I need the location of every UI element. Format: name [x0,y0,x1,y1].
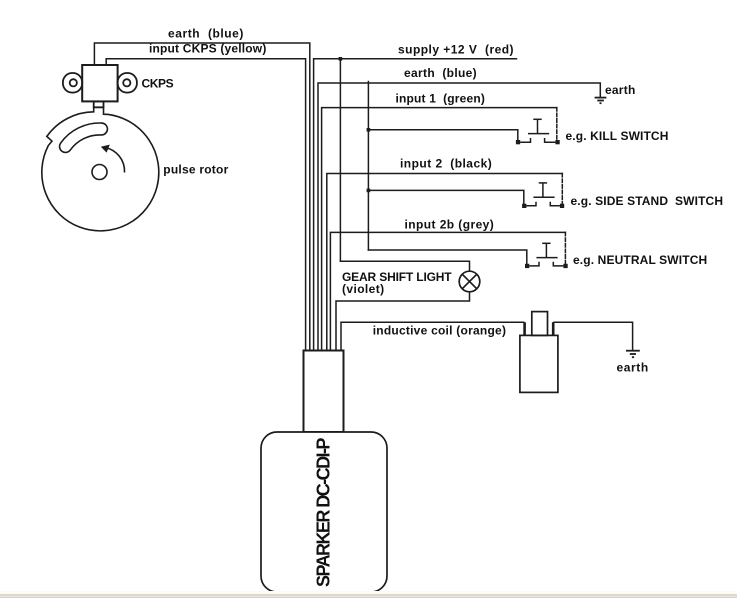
wire earth blue main from CDI to earth [318,83,600,351]
wire earth blue from CKPS to CDI [94,43,309,351]
earth symbol bottom right [626,351,640,358]
lamp GEAR SHIFT LIGHT [459,271,480,292]
bottom page strip [0,591,737,595]
wire kill switch return [368,130,517,140]
wire dashed drop to side stand switch [561,174,563,204]
pulse rotor outline with trigger tab and notch [42,107,159,231]
wire supply branch to gear shift light [339,59,341,261]
svg-text:CKPS: CKPS [142,77,174,91]
svg-text:input CKPS (yellow): input CKPS (yellow) [149,42,267,56]
svg-text:input 2 (black): input 2 (black) [400,157,492,171]
svg-text:supply +12 V (red): supply +12 V (red) [398,42,514,56]
svg-text:earth (blue): earth (blue) [168,27,244,41]
wire input 2b grey from CDI [330,232,565,350]
ignition coil (inductive) [520,312,558,393]
rotor center hole [92,165,107,180]
pushbutton switch NEUTRAL SWITCH [525,243,568,268]
wire supply +12V red from CDI [314,59,517,351]
wire switch-return bus [367,82,369,251]
svg-text:(violet): (violet) [342,282,385,296]
wire ignition coil to earth [554,322,633,350]
rotor slot (banana window) [66,129,102,147]
CKPS left mounting ear [63,73,82,93]
wire inductive coil orange from CDI [341,322,524,350]
earth symbol top right [595,98,607,104]
wire side stand switch return [368,190,523,203]
junction kill return [367,128,371,132]
wire neutral switch return [368,250,526,264]
svg-text:e.g. SIDE STAND SWITCH: e.g. SIDE STAND SWITCH [571,194,724,208]
CDI unit body SPARKER DC-CDI-P [261,432,387,592]
svg-text:e.g. NEUTRAL SWITCH: e.g. NEUTRAL SWITCH [573,253,707,267]
rotation arrow head [101,145,110,153]
wire dashed drop to neutral switch [564,232,566,263]
sensor CKPS body [82,65,117,101]
svg-text:input 2b (grey): input 2b (grey) [405,217,495,231]
wire input CKPS yellow from CKPS to CDI [106,59,305,351]
svg-text:earth (blue): earth (blue) [404,66,477,80]
wire gear shift light bottom violet to CDI [336,292,470,351]
wire input 2 black from CDI [327,174,563,351]
wire dashed drop to kill switch [556,108,558,140]
wire gear shift light top [340,261,469,271]
svg-text:SPARKER DC-CDI-P: SPARKER DC-CDI-P [314,438,334,587]
wire input 1 green from CDI [322,108,557,351]
CDI cable stem [304,351,344,433]
CKPS bottom stub on rotor tab [94,101,104,107]
junction supply/gear-light [339,57,343,61]
svg-text:earth: earth [605,83,636,97]
CKPS right mounting ear [118,73,137,93]
svg-text:pulse rotor: pulse rotor [163,163,228,177]
pushbutton switch KILL SWITCH [516,119,560,144]
svg-text:inductive coil (orange): inductive coil (orange) [373,324,507,338]
svg-text:e.g. KILL SWITCH: e.g. KILL SWITCH [566,129,669,143]
pushbutton switch SIDE STAND SWITCH [522,183,564,208]
svg-text:earth: earth [617,361,649,375]
svg-text:input 1 (green): input 1 (green) [396,92,486,106]
rotation arrow [105,148,125,173]
junction side stand return [367,189,371,193]
